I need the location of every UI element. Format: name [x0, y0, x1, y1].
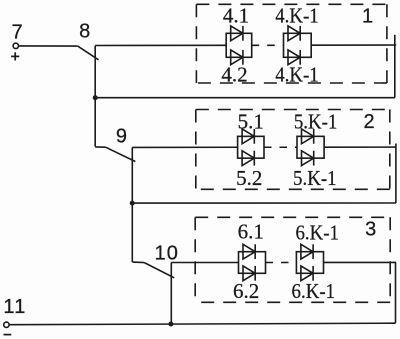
- module 2 label: [363, 111, 374, 133]
- module 3 dashed boundary: [195, 217, 390, 302]
- svg-text:6.K-1: 6.K-1: [295, 221, 339, 245]
- wire module3 output: [324, 261, 397, 263]
- diode pair 5.K-1/5.K-1 enclosure: [297, 136, 324, 158]
- wire module1 output: [311, 44, 396, 46]
- diode 5.K-1: [302, 151, 314, 166]
- wire return module1 horizontal: [95, 97, 395, 99]
- label 4.1: [223, 3, 249, 27]
- label 5.2: [236, 166, 262, 190]
- module 1 dashed boundary: [196, 4, 387, 83]
- svg-text:2: 2: [363, 111, 374, 133]
- diode 4.1: [231, 26, 243, 41]
- diode 4.2: [231, 50, 243, 65]
- switch 8 blade: [78, 46, 99, 60]
- module 1 label: [362, 6, 373, 28]
- diode 6.2: [243, 266, 255, 281]
- svg-text:10: 10: [154, 242, 179, 264]
- wire return module2 vertical: [395, 144, 397, 204]
- label 4.K-1 bottom: [275, 63, 319, 87]
- switch 8 label: [79, 20, 90, 42]
- svg-text:6.1: 6.1: [238, 220, 264, 244]
- svg-text:4.K-1: 4.K-1: [275, 63, 319, 87]
- svg-text:11: 11: [3, 296, 26, 318]
- wire feed module2: [132, 146, 237, 148]
- wire bottom bus: [9, 323, 395, 325]
- junction node B: [130, 201, 135, 206]
- diode 5.1: [242, 129, 254, 144]
- terminal 11: [4, 322, 9, 327]
- label 5.K-1 top: [294, 110, 338, 134]
- svg-text:6.2: 6.2: [233, 279, 259, 303]
- label 6.2: [233, 279, 259, 303]
- svg-text:4.K-1: 4.K-1: [275, 3, 319, 27]
- svg-text:4.2: 4.2: [221, 63, 247, 87]
- svg-text:5.K-1: 5.K-1: [293, 166, 337, 190]
- label 6.1: [238, 220, 264, 244]
- wire return module3 vertical: [395, 262, 397, 323]
- svg-text:4.1: 4.1: [223, 3, 249, 27]
- diode 4.K-1: [288, 26, 300, 41]
- label 6.K-1 bottom: [292, 279, 336, 303]
- svg-text:8: 8: [79, 20, 90, 42]
- diode 6.K-1: [301, 266, 313, 281]
- dashed continuation wire module1: [252, 44, 284, 46]
- diode 4.K-1: [288, 50, 300, 65]
- svg-text:6.K-1: 6.K-1: [292, 279, 336, 303]
- module 2 dashed boundary: [196, 110, 390, 190]
- diode pair 5.1/5.2 enclosure: [238, 136, 264, 158]
- svg-text:5.2: 5.2: [236, 166, 262, 190]
- svg-text:9: 9: [116, 126, 127, 148]
- wire vertical bus V3: [170, 263, 172, 325]
- diode pair 4.1/4.2 enclosure: [226, 33, 252, 57]
- label 4.2: [221, 63, 247, 87]
- switch 9 blade: [106, 147, 136, 161]
- svg-text:3: 3: [365, 218, 376, 240]
- diode 5.K-1: [302, 129, 314, 144]
- wire return module2 horizontal: [132, 202, 396, 204]
- diode pair 6.K-1/6.K-1 enclosure: [296, 252, 323, 274]
- wire vertical bus V2: [131, 147, 133, 262]
- minus polarity mark: [4, 334, 12, 336]
- switch 9 lead stub: [95, 146, 105, 148]
- label 4.K-1 top: [275, 3, 319, 27]
- switch 10 blade: [144, 263, 174, 278]
- wire feed module1: [95, 44, 226, 46]
- dashed continuation wire module2: [264, 146, 297, 148]
- terminal 7 label: [11, 22, 22, 44]
- junction node C: [168, 322, 173, 327]
- wire vertical bus V1: [94, 46, 96, 147]
- switch 10 label: [154, 242, 179, 264]
- wire terminal7 to switch8: [19, 45, 78, 47]
- label 6.K-1 top: [295, 221, 339, 245]
- diode 6.K-1: [301, 244, 313, 259]
- dashed continuation wire module3: [266, 262, 297, 264]
- diode pair 6.1/6.2 enclosure: [239, 252, 266, 274]
- svg-text:1: 1: [362, 6, 373, 28]
- module 3 label: [365, 218, 376, 240]
- label 5.K-1 bottom: [293, 166, 337, 190]
- switch 10 lead stub: [132, 261, 144, 264]
- switch 9 label: [116, 126, 127, 148]
- wire module2 output: [324, 146, 396, 148]
- junction node A: [93, 95, 98, 100]
- svg-text:7: 7: [11, 22, 22, 44]
- terminal 11 label: [3, 296, 26, 318]
- diode 6.1: [243, 244, 255, 259]
- terminal 7: [13, 43, 18, 48]
- wire feed module3: [171, 262, 238, 264]
- svg-text:5.K-1: 5.K-1: [294, 110, 338, 134]
- diode 5.2: [242, 151, 254, 166]
- wire return module1 vertical: [394, 35, 396, 98]
- plus polarity mark: [11, 52, 19, 60]
- label 5.1: [238, 110, 264, 134]
- diode pair 4.K-1/4.K-1 enclosure: [284, 33, 312, 57]
